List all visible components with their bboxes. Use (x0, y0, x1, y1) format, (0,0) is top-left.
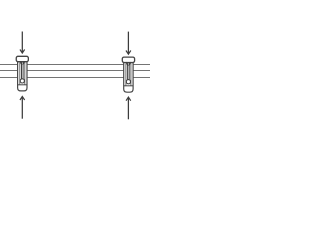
left fastener cross line (18, 84, 27, 86)
right fastener cross line (124, 85, 133, 87)
left fastener inner wall left (19, 63, 21, 85)
left fastener slot (22, 62, 24, 79)
left fastener inner wall right (24, 63, 26, 85)
right down arrow shaft (127, 32, 129, 54)
panel upper line (0, 64, 150, 66)
right fastener inner wall left (125, 63, 127, 85)
right down arrowhead core (127, 52, 129, 54)
right fastener head (122, 57, 134, 62)
right up arrowhead (126, 97, 131, 101)
right up arrowhead core (127, 97, 129, 99)
right fastener slot (128, 63, 130, 80)
left fastener head (16, 56, 28, 61)
left up arrowhead (20, 96, 25, 100)
right fastener body (124, 63, 133, 93)
left down arrowhead core (21, 51, 23, 53)
right fastener inner wall right (130, 63, 132, 85)
rail bottom line (0, 77, 150, 79)
right fastener funnel notch (126, 63, 130, 66)
right down arrowhead (126, 51, 131, 55)
right up arrow shaft (127, 97, 129, 119)
left down arrow shaft (21, 32, 23, 53)
left fastener body (18, 62, 27, 91)
left up arrow shaft (21, 97, 23, 119)
left up arrowhead core (21, 96, 23, 98)
left down arrowhead (20, 50, 25, 54)
left fastener funnel notch (20, 62, 24, 65)
rail top line (0, 70, 150, 72)
left fastener circle (20, 79, 24, 83)
right fastener circle (126, 80, 130, 84)
